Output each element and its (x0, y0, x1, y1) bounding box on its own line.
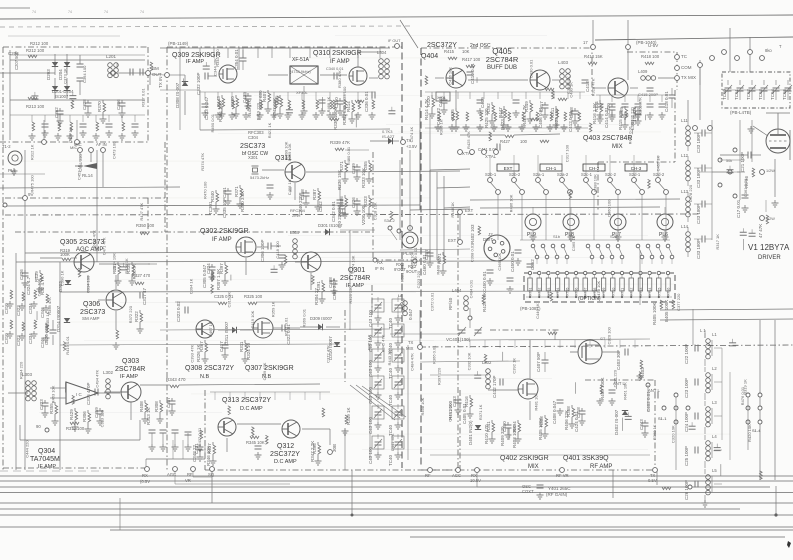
svg-text:C302 2.2P: C302 2.2P (332, 279, 337, 300)
svg-text:SM AMP: SM AMP (82, 316, 100, 321)
svg-text:C307: C307 (166, 397, 171, 408)
svg-text:C402 0.01: C402 0.01 (646, 391, 651, 412)
svg-text:MIX: MIX (528, 464, 539, 470)
svg-text:C408 0.047: C408 0.047 (552, 400, 557, 424)
svg-text:R415: R415 (444, 49, 455, 54)
svg-text:C372 0.01: C372 0.01 (429, 292, 434, 311)
svg-text:C23 100P: C23 100P (684, 378, 689, 398)
svg-text:+3.5V: +3.5V (406, 144, 417, 149)
svg-text:R408 100K: R408 100K (600, 377, 605, 400)
svg-text:R323 100: R323 100 (342, 86, 347, 104)
svg-text:C320 10K: C320 10K (670, 425, 675, 443)
svg-text:C474 10K: C474 10K (448, 404, 453, 422)
svg-text:D308 IS-007: D308 IS-007 (175, 82, 180, 108)
svg-text:100: 100 (520, 139, 528, 144)
svg-text:R394 220: R394 220 (18, 361, 23, 379)
svg-text:C450 0.01: C450 0.01 (510, 251, 515, 272)
svg-text:L5: L5 (712, 468, 717, 473)
svg-text:X'TAL: X'TAL (485, 154, 497, 159)
svg-text:2SC784R: 2SC784R (486, 55, 519, 64)
svg-text:TC301: TC301 (208, 201, 213, 215)
svg-text:X714: X714 (648, 288, 652, 296)
svg-text:D402 IS-007: D402 IS-007 (614, 409, 619, 435)
svg-text:R380 47K: R380 47K (337, 70, 342, 88)
svg-text:2SC373: 2SC373 (240, 143, 265, 150)
svg-text:R406 22K: R406 22K (564, 410, 569, 430)
svg-text:C410 0.01: C410 0.01 (470, 63, 475, 84)
svg-text:RF VR: RF VR (556, 473, 569, 478)
svg-text:C429 1K: C429 1K (68, 127, 73, 143)
svg-text:C418 0.01: C418 0.01 (664, 91, 669, 112)
svg-text:R359 1K: R359 1K (271, 301, 276, 317)
svg-text:RF AMP: RF AMP (590, 464, 612, 470)
svg-text:R322: R322 (134, 311, 139, 322)
svg-text:R448 1K: R448 1K (450, 202, 455, 218)
svg-text:L14: L14 (681, 224, 689, 229)
svg-text:L4: L4 (712, 434, 717, 439)
svg-text:Q305 2SC373: Q305 2SC373 (60, 239, 104, 246)
svg-text:Y401 265C: Y401 265C (548, 486, 571, 491)
svg-text:T1-2: T1-2 (2, 144, 11, 149)
svg-text:BUFF DUB: BUFF DUB (487, 65, 517, 71)
svg-text:R405 100K: R405 100K (652, 302, 657, 325)
svg-text:R346 10K: R346 10K (206, 446, 211, 466)
svg-text:(PB-L4TB): (PB-L4TB) (730, 110, 752, 115)
svg-text:RF/40: RF/40 (448, 297, 453, 310)
svg-text:R408: R408 (139, 401, 144, 412)
svg-text:C17 0.01: C17 0.01 (736, 199, 741, 218)
svg-text:L11: L11 (681, 118, 688, 123)
svg-text:100K: 100K (60, 252, 70, 257)
svg-text:L403: L403 (558, 60, 569, 65)
svg-text:R371: R371 (234, 186, 239, 197)
svg-text:R463 10K: R463 10K (50, 385, 55, 403)
svg-text:Q401 3SK39Q: Q401 3SK39Q (563, 455, 609, 462)
svg-text:C305 0.047: C305 0.047 (202, 264, 207, 288)
svg-text:C373 1K: C373 1K (62, 68, 67, 84)
svg-text:R349 1K: R349 1K (346, 407, 351, 425)
svg-text:C393 47K: C393 47K (190, 344, 195, 362)
svg-text:IF AMP: IF AMP (186, 59, 204, 65)
svg-text:(4733.9kHz): (4733.9kHz) (290, 70, 311, 74)
svg-text:L8: L8 (398, 293, 403, 298)
svg-text:R308: R308 (154, 401, 159, 412)
svg-text:C398 0.01: C398 0.01 (469, 243, 474, 262)
svg-text:5473.2kHz: 5473.2kHz (250, 175, 269, 180)
svg-text:R414 4.7K: R414 4.7K (424, 99, 429, 120)
svg-text:C310: C310 (4, 333, 9, 344)
svg-text:2SC784R: 2SC784R (115, 366, 145, 373)
svg-text:R426 1K: R426 1K (124, 258, 129, 274)
svg-text:R468 1K: R468 1K (326, 97, 331, 113)
svg-text:C334: C334 (28, 333, 33, 344)
svg-text:C43 100: C43 100 (368, 416, 373, 434)
svg-text:C301: C301 (222, 187, 227, 198)
svg-text:R337 0.01: R337 0.01 (140, 88, 145, 107)
svg-text:X716: X716 (667, 288, 671, 296)
svg-text:ANT L: ANT L (648, 388, 660, 393)
svg-text:R419 0.01: R419 0.01 (65, 335, 70, 354)
svg-text:COXT: COXT (522, 489, 534, 494)
svg-text:Q403 2SC784R: Q403 2SC784R (583, 135, 632, 142)
svg-text:C326: C326 (19, 269, 24, 280)
svg-text:90: 90 (36, 424, 41, 429)
svg-text:Q313 2SC372Y: Q313 2SC372Y (222, 397, 271, 404)
svg-text:L1: L1 (712, 332, 717, 337)
svg-text:C335 220: C335 220 (612, 369, 617, 387)
svg-text:L302: L302 (103, 370, 114, 375)
svg-text:D203: D203 (46, 69, 51, 80)
svg-text:R425 100: R425 100 (484, 108, 489, 128)
svg-text:74: 74 (140, 10, 144, 14)
svg-text:L3: L3 (712, 400, 717, 405)
svg-text:C414 0.01: C414 0.01 (604, 107, 609, 128)
svg-text:R437 0.01: R437 0.01 (197, 427, 202, 446)
svg-text:R325 100: R325 100 (244, 294, 263, 299)
svg-text:74: 74 (32, 10, 36, 14)
svg-text:C369 10K: C369 10K (287, 143, 292, 161)
svg-text:C365 1K: C365 1K (571, 235, 576, 251)
svg-text:R325 220: R325 220 (348, 285, 353, 303)
svg-text:R428 10K: R428 10K (482, 292, 487, 312)
svg-text:C315 1K: C315 1K (226, 292, 231, 308)
svg-text:R213 100: R213 100 (26, 104, 45, 109)
svg-text:IS-A2T: IS-A2T (382, 134, 395, 139)
svg-text:C323 220: C323 220 (416, 270, 421, 288)
svg-text:TX MIX: TX MIX (681, 75, 696, 80)
svg-text:R319 1K: R319 1K (743, 379, 748, 395)
svg-text:R369 0.01: R369 0.01 (301, 308, 306, 327)
svg-text:C418 100: C418 100 (275, 241, 280, 259)
svg-text:CH-3: CH-3 (631, 166, 642, 171)
svg-text:R360 47K: R360 47K (638, 97, 643, 115)
svg-text:R336 100K: R336 100K (333, 107, 338, 130)
svg-text:C306: C306 (116, 99, 121, 110)
svg-text:R467 1K: R467 1K (208, 321, 213, 337)
svg-text:C33 180P: C33 180P (696, 168, 701, 188)
svg-text:RF: RF (425, 473, 431, 478)
svg-text:BM: BM (152, 66, 159, 71)
svg-text:2SC372Y: 2SC372Y (270, 451, 300, 458)
svg-text:X401: X401 (437, 96, 446, 100)
svg-text:C417: C417 (219, 341, 224, 352)
svg-text:C493 10K: C493 10K (36, 278, 41, 296)
svg-text:30B: 30B (332, 444, 337, 452)
svg-text:IF AMP: IF AMP (38, 464, 56, 470)
svg-text:R350 100: R350 100 (136, 223, 155, 228)
svg-text:TC: TC (681, 54, 688, 59)
svg-text:C335 10P: C335 10P (222, 198, 227, 218)
svg-text:S1-4: S1-4 (752, 428, 761, 433)
svg-text:C43 100: C43 100 (368, 359, 373, 377)
svg-text:R413 15K: R413 15K (584, 54, 603, 59)
svg-text:D309 IS007: D309 IS007 (310, 316, 333, 321)
svg-text:R403 100K: R403 100K (512, 425, 517, 448)
svg-text:R311: R311 (239, 341, 244, 352)
svg-text:D301 IS1007: D301 IS1007 (318, 223, 343, 228)
svg-text:R470 100: R470 100 (203, 181, 208, 199)
svg-text:2nd OSC: 2nd OSC (470, 43, 491, 49)
svg-text:X712: X712 (630, 288, 634, 296)
svg-text:C22 100P: C22 100P (684, 344, 689, 364)
svg-text:S2b-2: S2b-2 (509, 172, 521, 177)
svg-text:C394 1K: C394 1K (188, 278, 193, 294)
svg-text:C455 1K: C455 1K (655, 155, 660, 171)
svg-text:C24 100P: C24 100P (684, 412, 689, 432)
svg-text:CH-1: CH-1 (546, 166, 557, 171)
svg-text:10K: 10K (462, 49, 470, 54)
svg-text:S1b: S1b (553, 234, 561, 239)
svg-text:R405 100K: R405 100K (538, 417, 543, 440)
svg-text:R312 1K: R312 1K (29, 144, 34, 160)
svg-text:L304: L304 (377, 50, 387, 55)
svg-text:C332 10K: C332 10K (466, 352, 471, 370)
svg-text:R343 100: R343 100 (215, 49, 220, 67)
svg-text:C390 1K: C390 1K (60, 270, 65, 286)
svg-text:1/2W: 1/2W (766, 169, 775, 173)
svg-text:47 47K: 47 47K (758, 224, 763, 238)
svg-text:C342: C342 (318, 201, 323, 212)
svg-text:17: 17 (583, 40, 588, 45)
svg-text:C406 0.01: C406 0.01 (538, 107, 543, 128)
svg-text:R347 2.2K: R347 2.2K (310, 441, 315, 462)
svg-text:C207 50P: C207 50P (14, 51, 19, 70)
svg-text:D.C AMP: D.C AMP (240, 406, 263, 412)
svg-text:R473 10K: R473 10K (596, 281, 601, 299)
svg-text:R409 330: R409 330 (500, 426, 505, 446)
svg-text:C452: C452 (530, 259, 535, 270)
svg-text:R420 10K: R420 10K (747, 424, 752, 442)
svg-text:OUT: OUT (152, 72, 162, 77)
svg-text:R336 15K: R336 15K (337, 170, 342, 190)
svg-text:1/2W: 1/2W (766, 217, 775, 221)
svg-text:C342 0.01: C342 0.01 (331, 201, 336, 222)
svg-text:R418 100: R418 100 (641, 54, 660, 59)
svg-text:Q303: Q303 (122, 358, 139, 365)
svg-text:C326: C326 (351, 197, 356, 208)
svg-text:R377 0.01: R377 0.01 (284, 317, 289, 336)
svg-text:2SC784R: 2SC784R (340, 275, 370, 282)
svg-text:DOIT: DOIT (483, 237, 493, 242)
svg-text:Q312: Q312 (277, 443, 294, 450)
svg-text:R212 100: R212 100 (30, 41, 49, 46)
svg-text:Q306: Q306 (83, 301, 100, 308)
svg-text:Q310 2SKI9GR: Q310 2SKI9GR (313, 50, 362, 57)
svg-text:C471 47K: C471 47K (101, 237, 106, 255)
svg-text:C310: C310 (4, 303, 9, 314)
svg-text:L 1: L 1 (700, 328, 706, 333)
svg-text:C25 100P: C25 100P (684, 446, 689, 466)
svg-text:C343: C343 (639, 419, 644, 430)
svg-text:Q302 2SKI9GR: Q302 2SKI9GR (200, 228, 249, 235)
svg-text:R437 0.01: R437 0.01 (627, 125, 632, 144)
svg-text:C494 47K: C494 47K (95, 369, 100, 387)
svg-text:C407 50P: C407 50P (536, 352, 541, 372)
svg-text:R380 1K: R380 1K (439, 119, 444, 135)
svg-text:74: 74 (104, 10, 108, 14)
svg-text:C33 180P: C33 180P (696, 133, 701, 153)
svg-text:(RF GAIN): (RF GAIN) (546, 492, 568, 497)
svg-text:D311 IS007: D311 IS007 (224, 321, 229, 345)
svg-text:L303: L303 (22, 372, 33, 377)
svg-text:C323 0.02: C323 0.02 (176, 301, 181, 322)
svg-text:AF IN: AF IN (96, 142, 107, 147)
svg-text:C419 10K: C419 10K (250, 310, 255, 328)
svg-text:C377 220: C377 220 (676, 293, 681, 311)
svg-text:C430 1K: C430 1K (569, 82, 574, 98)
svg-text:Q404: Q404 (421, 53, 438, 60)
svg-text:TC40: TC40 (388, 394, 393, 406)
svg-text:X709: X709 (602, 288, 606, 296)
svg-text:C334: C334 (28, 303, 33, 314)
svg-text:C412 0.01: C412 0.01 (568, 111, 573, 132)
svg-text:SQ: SQ (208, 472, 215, 477)
svg-text:L12: L12 (681, 153, 689, 158)
svg-text:R317 1K: R317 1K (715, 234, 720, 250)
svg-text:C336 0.01: C336 0.01 (364, 91, 369, 112)
svg-text:R326 1K: R326 1K (196, 344, 201, 362)
svg-text:RX: RX (377, 260, 383, 265)
svg-text:C43 100: C43 100 (368, 446, 373, 464)
svg-text:X711: X711 (621, 288, 625, 296)
svg-text:D401 IN2(0): D401 IN2(0) (468, 420, 473, 445)
svg-text:X706: X706 (575, 288, 579, 296)
svg-text:RF: RF (187, 472, 193, 477)
svg-text:S2d-1: S2d-1 (629, 172, 641, 177)
svg-text:C304: C304 (248, 135, 259, 140)
svg-text:D.C AMP: D.C AMP (274, 459, 297, 465)
svg-text:AGC: AGC (167, 472, 176, 477)
svg-text:C378 220: C378 220 (688, 184, 693, 202)
svg-text:C320 100: C320 100 (606, 326, 611, 344)
svg-text:R486 10K: R486 10K (508, 194, 513, 212)
svg-text:0.5V: 0.5V (648, 478, 657, 483)
svg-text:S2b-1: S2b-1 (485, 172, 497, 177)
svg-text:T: T (779, 44, 782, 49)
svg-text:C441 47K: C441 47K (390, 433, 395, 451)
svg-text:C317 100: C317 100 (564, 144, 569, 162)
svg-text:R333 10K: R333 10K (361, 168, 366, 188)
svg-text:X705: X705 (565, 288, 569, 296)
svg-text:C323: C323 (39, 399, 44, 410)
svg-text:R368 1K: R368 1K (652, 424, 657, 440)
svg-text:MIX: MIX (406, 346, 414, 351)
svg-text:RL14: RL14 (82, 173, 93, 178)
svg-text:R436 47K: R436 47K (92, 230, 97, 248)
svg-text:C372 47K: C372 47K (325, 345, 330, 363)
svg-text:X301: X301 (248, 155, 258, 160)
svg-text:R351 1K: R351 1K (366, 334, 371, 350)
svg-text:R423 6.8K: R423 6.8K (500, 109, 505, 130)
svg-text:S2a-1: S2a-1 (533, 172, 545, 177)
svg-text:DRIVER: DRIVER (758, 255, 781, 261)
svg-text:S2d-2: S2d-2 (653, 172, 665, 177)
svg-text:C473 100: C473 100 (112, 141, 117, 159)
svg-text:X701: X701 (529, 288, 533, 296)
svg-text:R371 1K: R371 1K (478, 404, 483, 420)
svg-text:R328 47K: R328 47K (590, 78, 595, 96)
svg-text:AGC: AGC (452, 473, 461, 478)
svg-text:C475 47K: C475 47K (632, 106, 637, 124)
svg-text:C354 0.01: C354 0.01 (234, 49, 239, 70)
svg-text:X710: X710 (611, 288, 615, 296)
svg-text:Q402 2SKI9GR: Q402 2SKI9GR (500, 455, 549, 462)
svg-text:C330 0.01: C330 0.01 (529, 59, 534, 78)
svg-text:R425 47K: R425 47K (466, 131, 471, 149)
svg-text:R443 220: R443 220 (387, 347, 392, 365)
svg-text:X704: X704 (556, 288, 560, 296)
svg-text:R397 220: R397 220 (437, 367, 442, 385)
svg-text:C388 10K: C388 10K (593, 174, 598, 192)
svg-text:R374 47K: R374 47K (200, 153, 205, 171)
svg-text:TC40: TC40 (388, 454, 393, 466)
svg-text:X707: X707 (584, 288, 588, 296)
svg-text:C341 220: C341 220 (78, 153, 83, 171)
svg-text:C322: C322 (16, 305, 21, 316)
svg-text:B405 100K: B405 100K (664, 300, 669, 322)
svg-text:IF OUT: IF OUT (388, 39, 401, 43)
svg-text:L409: L409 (638, 69, 648, 74)
svg-text:CH-2: CH-2 (589, 166, 600, 171)
svg-text:R370: R370 (97, 101, 102, 112)
svg-text:C446 1K: C446 1K (535, 303, 540, 319)
svg-text:R212 100: R212 100 (26, 48, 45, 53)
svg-text:R345 10K: R345 10K (246, 440, 265, 445)
svg-text:R427: R427 (500, 139, 511, 144)
svg-text:C413: C413 (585, 81, 590, 92)
svg-text:R415 220: R415 220 (618, 110, 623, 130)
svg-text:C403 30P: C403 30P (616, 350, 621, 370)
svg-text:MIX: MIX (612, 144, 623, 150)
svg-text:L2: L2 (712, 366, 717, 371)
svg-text:S2a-2: S2a-2 (557, 172, 569, 177)
svg-text:X715: X715 (657, 288, 661, 296)
svg-text:D314 IS0007: D314 IS0007 (56, 305, 61, 332)
svg-text:XF30L: XF30L (296, 90, 309, 95)
svg-text:R312 100: R312 100 (66, 426, 85, 431)
svg-text:L309: L309 (290, 230, 300, 235)
svg-text:R340: R340 (210, 191, 215, 202)
svg-text:C43 100: C43 100 (368, 386, 373, 404)
svg-text:IF AMP: IF AMP (330, 59, 350, 65)
svg-text:Q309 2SKI9GR: Q309 2SKI9GR (172, 52, 221, 59)
svg-text:C324 10K: C324 10K (112, 253, 117, 271)
svg-text:TA7045M: TA7045M (30, 456, 60, 463)
svg-text:R421 1K: R421 1K (267, 122, 272, 138)
svg-text:IF AMP: IF AMP (120, 374, 138, 380)
svg-text:Q304: Q304 (38, 448, 55, 455)
svg-text:C484 47K: C484 47K (409, 353, 414, 371)
svg-text:C324 4.7: C324 4.7 (26, 276, 31, 295)
svg-text:S2c-1: S2c-1 (581, 172, 593, 177)
svg-text:R488 100: R488 100 (435, 257, 440, 275)
svg-text:S1-1: S1-1 (658, 416, 667, 421)
svg-text:IF AMP: IF AMP (212, 237, 232, 243)
svg-text:C26 100P: C26 100P (684, 480, 689, 500)
svg-text:C318 10K: C318 10K (372, 202, 377, 220)
svg-text:74: 74 (68, 10, 72, 14)
svg-text:C444 220: C444 220 (25, 440, 30, 458)
svg-text:R490 0.01: R490 0.01 (210, 113, 215, 132)
svg-text:C469 47K: C469 47K (262, 362, 267, 380)
svg-text:C346: C346 (40, 337, 45, 348)
svg-text:R366 0.01: R366 0.01 (432, 345, 437, 364)
svg-text:2mH: 2mH (292, 213, 301, 218)
svg-text:C323 100: C323 100 (100, 409, 105, 427)
svg-text:2SC372Y: 2SC372Y (427, 42, 457, 49)
svg-text:C474 10K: C474 10K (351, 255, 356, 273)
svg-text:R416 1.5K: R416 1.5K (592, 103, 597, 124)
